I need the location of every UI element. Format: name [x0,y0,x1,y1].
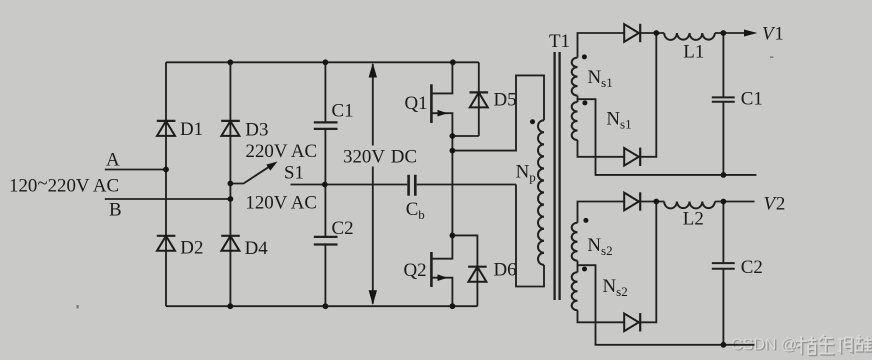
svg-text:Q2: Q2 [404,260,427,281]
svg-text:D3: D3 [245,120,268,141]
svg-text:D6: D6 [494,260,517,281]
svg-text:DC: DC [391,147,417,168]
svg-text:B: B [109,200,122,221]
svg-text:Ns1: Ns1 [606,109,631,132]
svg-text:D5: D5 [494,90,517,111]
svg-text:C1: C1 [332,101,354,122]
svg-text:120V AC: 120V AC [245,192,317,213]
svg-text:C2: C2 [741,257,763,278]
svg-text:C1: C1 [741,89,763,110]
svg-text:S1: S1 [284,162,304,183]
svg-text:D1: D1 [180,119,203,140]
svg-text:A: A [106,150,120,171]
svg-text:Ns2: Ns2 [603,276,628,299]
svg-text:D4: D4 [245,238,269,259]
svg-text:Cb: Cb [406,199,425,222]
svg-text:T1: T1 [549,31,570,52]
svg-text:120~220V AC: 120~220V AC [9,173,119,196]
svg-text:320V: 320V [343,147,385,168]
svg-text:V1: V1 [762,24,785,45]
svg-text:Q1: Q1 [405,93,428,114]
svg-text:Np: Np [516,161,536,184]
svg-text:V2: V2 [764,194,787,215]
svg-text:Ns1: Ns1 [588,67,613,90]
svg-text:220V AC: 220V AC [246,141,318,162]
svg-text:C2: C2 [332,218,354,239]
svg-text:L2: L2 [683,208,704,229]
svg-text:Ns2: Ns2 [587,235,612,258]
svg-text:L1: L1 [683,41,704,62]
svg-text:D2: D2 [180,238,203,259]
